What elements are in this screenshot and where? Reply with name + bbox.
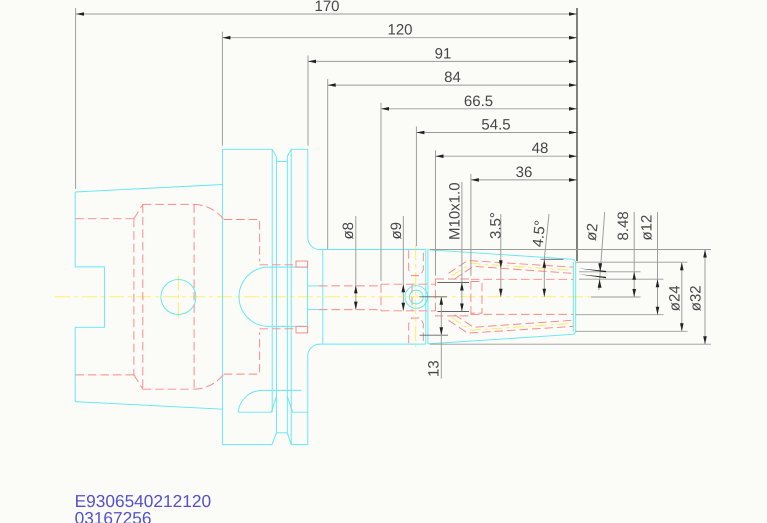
svg-text:3.5°: 3.5° <box>487 212 504 239</box>
svg-text:03167256: 03167256 <box>75 508 152 523</box>
svg-text:ø9: ø9 <box>388 222 405 240</box>
svg-text:ø12: ø12 <box>639 215 656 241</box>
svg-text:M10x1.0: M10x1.0 <box>446 182 463 240</box>
svg-text:170: 170 <box>314 0 339 15</box>
svg-text:13: 13 <box>426 360 443 377</box>
svg-text:54.5: 54.5 <box>481 117 510 134</box>
svg-text:84: 84 <box>444 69 461 86</box>
svg-text:120: 120 <box>387 22 412 39</box>
svg-text:91: 91 <box>435 45 452 62</box>
svg-text:48: 48 <box>532 140 549 157</box>
svg-text:ø8: ø8 <box>340 222 357 240</box>
svg-text:36: 36 <box>516 164 533 181</box>
svg-text:ø24: ø24 <box>667 285 684 311</box>
svg-text:ø32: ø32 <box>688 285 705 311</box>
svg-text:4.5°: 4.5° <box>530 219 550 247</box>
svg-text:ø2: ø2 <box>583 222 602 241</box>
svg-text:8.48: 8.48 <box>615 211 632 240</box>
svg-text:66.5: 66.5 <box>464 93 493 110</box>
